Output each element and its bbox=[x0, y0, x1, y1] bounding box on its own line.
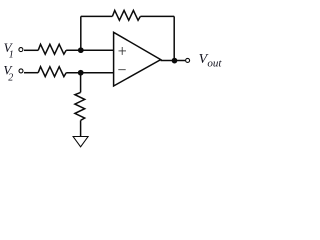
svg-text:1: 1 bbox=[9, 50, 14, 61]
svg-text:2: 2 bbox=[8, 73, 13, 84]
svg-text:out: out bbox=[207, 57, 222, 69]
